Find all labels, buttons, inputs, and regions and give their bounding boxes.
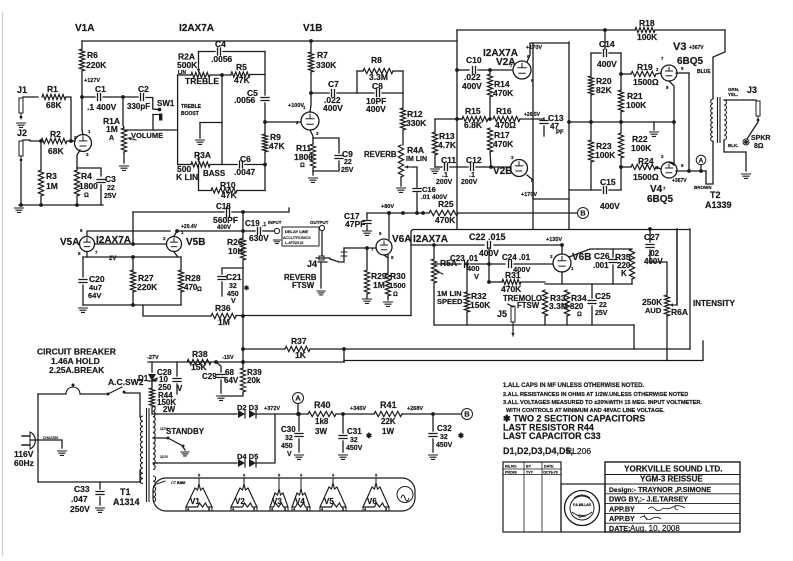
connector J3 label [747,85,757,95]
wire color brown [694,185,712,190]
resistor R17 value [493,130,514,149]
svg-text:.047: .047 [71,494,88,504]
wire C18 bus to C19 riser [242,212,244,231]
svg-text:D1,D2,D3,D4,D5,: D1,D2,D3,D4,D5, [503,446,573,456]
triode V6A [376,239,392,255]
svg-text:32: 32 [350,437,358,444]
tube section label V1B [303,23,322,34]
svg-text:C4: C4 [215,39,226,49]
connector J4 jack [316,256,330,262]
svg-text:C26: C26 [594,251,610,261]
wire C25 string top [591,284,593,298]
node riser joints [487,262,491,284]
title company [624,465,723,474]
node C16 B line [415,211,419,215]
svg-text:SW1: SW1 [157,99,175,108]
svg-text:+80V: +80V [381,204,394,210]
node A (screen tap) [696,155,706,165]
ground (C33) [96,508,105,512]
wire C28 string [176,362,178,376]
transformer T1 heater secondary [153,476,156,502]
capacitor C10 [473,67,476,74]
wire cathode row tremolo [545,283,632,285]
wire V5A cathode stub [86,252,88,257]
svg-text:-27V: -27V [147,355,159,361]
capacitor C13 value [548,113,564,136]
svg-text:5: 5 [208,508,210,512]
svg-text:C32: C32 [437,424,452,433]
ground (J1) [17,123,26,127]
pilot lamp [397,487,413,503]
capacitor C31 value [346,427,372,452]
svg-text:200V: 200V [461,179,478,186]
resistor R37 [285,346,310,351]
svg-text:.1: .1 [469,172,475,179]
reverb footswitch label [284,273,317,290]
resistor R41 value [380,400,397,436]
engineer stamp seal [565,491,600,526]
svg-text:R24: R24 [638,156,654,166]
wire grid row left [435,166,442,168]
svg-text:470K: 470K [493,88,514,98]
svg-text:C2: C2 [138,84,149,94]
svg-text:400V: 400V [462,81,482,91]
svg-text:22K: 22K [381,417,396,426]
resistor R29 value [371,271,387,290]
potentiometer R1A label [103,116,120,142]
wire OT secondary bottom [724,140,746,171]
delay line module [282,227,319,246]
wire plug to box [31,439,38,441]
wire V3 pin9 out [676,72,689,74]
node R36 R37 joins [241,314,245,364]
diode D2 [238,410,245,418]
svg-text:.01: .01 [421,194,430,201]
wire R27 top [132,257,134,270]
svg-text:1k8: 1k8 [315,417,329,426]
ground (treble boost) [196,140,205,144]
capacitor C16 [413,189,421,192]
wire ladder bottom right [609,189,621,191]
capacitor C4 value [211,39,233,64]
capacitor C4 [218,48,221,55]
svg-text:C24 .01: C24 .01 [502,253,531,262]
svg-text:YEL.: YEL. [728,92,738,97]
wire V5A plate top [87,231,170,236]
svg-text:TREBLE: TREBLE [181,104,202,110]
node B (mid) [578,208,589,219]
resistor R6 [79,49,84,71]
reverb wiper arrow [405,165,413,169]
capacitor C9 value [341,149,354,174]
capacitor C26 value [593,251,610,270]
resistor R32 value [470,291,491,310]
svg-text:60Hz: 60Hz [14,458,34,468]
resistor R12 [400,108,405,130]
svg-text:YGM-3 REISSUE: YGM-3 REISSUE [640,475,703,484]
wire R37 line right [310,348,690,350]
svg-text:R10: R10 [220,180,236,190]
capacitor C20 [79,280,87,283]
svg-text:R5A: R5A [440,258,457,268]
svg-text:330K: 330K [406,118,427,128]
resistor R4 value [79,171,98,199]
wire R10 left vertical [199,166,212,191]
svg-text:A1314: A1314 [113,497,140,507]
notes line 3 [503,400,702,406]
wire V6A cathode [384,255,388,258]
svg-text:3.ALL VOLTAGES MEASURED TO ±20: 3.ALL VOLTAGES MEASURED TO ±20%WITH 15 M… [503,400,702,406]
capacitor C30 value [281,425,296,458]
wire C20 bottom [82,285,84,305]
wire C10 to V2A grid [478,69,512,71]
node R5A top [432,243,436,247]
wire treble row left [178,74,191,76]
voltage V4 +367V [672,178,687,184]
capacitor C10 value [462,55,482,91]
svg-text:C21: C21 [226,272,242,282]
wire R7 top [310,41,312,52]
resistor R21 value [626,91,647,110]
node plate/C1 [80,95,84,99]
J5 ground arrow [511,322,515,336]
svg-text:64V: 64V [88,291,101,300]
capacitor C22 [488,242,491,249]
node plate V1B [309,91,313,95]
wire C23 line [435,263,461,265]
svg-text:330pF: 330pF [127,102,150,111]
resistor R17 [487,128,492,152]
capacitor C32 value [436,424,464,449]
voltage +372V [264,406,280,412]
capacitor C3 [97,180,105,183]
potentiometer R6A label [671,307,688,317]
wire C31 bottom [342,441,344,452]
svg-text:2.ALL RESISTANCES IN OHMS AT 1: 2.ALL RESISTANCES IN OHMS AT 1/2W.UNLESS… [503,392,688,398]
svg-text:10K: 10K [228,246,244,256]
svg-text:✱: ✱ [366,432,372,440]
capacitor C20 value [88,274,105,300]
svg-text:R40: R40 [314,400,331,410]
svg-text:100K: 100K [637,32,658,42]
svg-text:47K: 47K [269,141,285,151]
ground (R13 C11) [431,169,440,173]
wire C33 bottom [99,497,101,505]
voltage +345V [350,406,366,412]
svg-text:+170V: +170V [526,45,542,51]
wire R30 top [387,255,389,273]
node C27 top [648,227,652,231]
capacitor C29 value [202,368,239,385]
svg-text:B: B [464,410,470,419]
wire R2 to V1A grid [67,140,75,142]
capacitor C8 [377,90,380,97]
capacitor C11 [445,164,448,171]
shielded cable marks [341,252,347,256]
svg-text:BLK.: BLK. [728,143,739,148]
capacitor C30 [295,434,303,437]
capacitor C12 [471,164,474,171]
resistor R21 [618,90,623,112]
svg-text:.1 400V: .1 400V [87,102,117,112]
resistor R1 [42,94,66,99]
switch AC SW2 [107,387,126,396]
svg-text:BASS: BASS [203,169,226,178]
wire C32 bottom [432,439,434,452]
capacitor C8 value [366,96,386,114]
transformer T2 primary [711,99,713,141]
svg-text:R1: R1 [47,84,58,94]
node V6B grid top [560,243,564,247]
wire R8 top left [357,70,363,72]
ground (speaker return) [742,174,751,178]
wire delay output down [321,231,323,256]
node cathode row x457 [455,117,459,121]
capacitor C32 [429,434,437,437]
wire volume line to tone box [124,129,178,131]
wire vertical x569 [568,42,570,229]
pin numbers V5A [78,228,98,256]
ground (R4A) [397,188,406,192]
resistor R24 [631,164,656,169]
resistor R23 value [595,141,616,160]
svg-text:SPKR: SPKR [751,135,770,142]
resistor R9 value [269,132,285,151]
resistor R13 [432,132,437,155]
svg-text:V5B: V5B [186,237,205,248]
resistor R28 [178,270,183,292]
svg-text:V2A: V2A [496,57,515,68]
wire R1 to grid node [66,97,71,141]
svg-text:3W: 3W [315,427,327,436]
voltage -15V [222,355,234,361]
svg-text:R38: R38 [192,349,208,359]
wire R10 right [237,190,265,192]
resistor R20 value [596,76,612,95]
wire R4A bottom [400,177,402,186]
wire tremolo box top [411,230,690,241]
wire C8 right [382,92,403,94]
node V6A plate [387,211,391,215]
svg-text:A: A [295,394,301,403]
node bottom bus [19,203,79,207]
tube label V6A [392,234,448,245]
resistor R16 value [495,106,516,130]
svg-text:Design:-: Design:- [609,487,636,494]
wire C21 bottom [221,282,223,296]
wire wiper to C16 [413,167,417,187]
delay line text [283,229,311,245]
svg-text:22: 22 [599,302,607,309]
wire C14 top feed [604,30,606,49]
svg-text:450V: 450V [346,445,363,452]
transformer T1 label [113,487,140,507]
svg-text:32: 32 [440,434,448,441]
triode V2B [511,160,528,177]
wire bias line right [344,341,703,362]
svg-text:1M: 1M [46,181,58,191]
wire R32 bottom [466,312,468,325]
resistor R40 value [314,400,331,436]
wire R12 to pot [402,130,404,145]
capacitor C16 value [421,185,448,201]
wire R16 to C13 [520,118,544,120]
wire R6A bottom [666,316,668,361]
node R37 junction [342,347,346,351]
wire C22 line left [411,244,484,246]
wire V4 pin9 row [676,170,706,172]
svg-text:OUTPUT: OUTPUT [310,220,329,225]
wire C18 bus left [133,211,224,213]
svg-text:470K: 470K [501,284,522,294]
potentiometer R1A volume [121,128,126,152]
tube type 6BQ5 (V3) [677,56,704,67]
bass label [203,169,226,178]
potentiometer R5A label [440,258,457,268]
svg-text:6.8K: 6.8K [464,120,483,130]
wire lower rectifier rail [157,462,237,464]
pin numbers V2B [511,155,534,183]
svg-text:400V: 400V [323,103,343,113]
wire V5 cathode row [83,256,181,258]
svg-text:R5: R5 [236,62,247,72]
svg-text:47K: 47K [221,190,237,200]
svg-text:25V: 25V [595,310,608,317]
svg-text:REVERB: REVERB [364,150,397,159]
transformer T1 primary [140,416,143,484]
svg-text:APP.BY: APP.BY [609,504,635,513]
capacitor C5 value [234,88,258,105]
svg-text:Ω: Ω [197,287,202,293]
svg-text:C12: C12 [466,155,482,165]
wire V3 cathode down [669,81,674,122]
resistor R22 value [631,134,652,153]
resistor R27 [130,270,135,292]
delay line input terminal [274,228,279,233]
wire R5A top [433,245,435,259]
wire AC box left [37,394,39,482]
svg-text:5: 5 [342,508,344,512]
wire OT primary top feed [713,30,725,99]
wire C29 string [216,362,221,372]
resistor R11 [310,144,315,168]
resistor R28 value [184,273,202,293]
svg-text:C27: C27 [644,232,660,242]
svg-text:INPUT: INPUT [268,220,282,225]
wire D1 to R44 [151,382,153,388]
capacitor C23 [465,261,468,268]
wire A stub [297,404,299,414]
wire R14 top [489,70,491,74]
resistor R24 value [633,156,659,182]
capacitor C14 value [597,39,617,69]
wire ladder mid bridge [569,121,674,123]
svg-text:BOOST: BOOST [181,111,199,117]
wire ladder left lower [590,162,592,190]
svg-text:V2: V2 [235,497,245,506]
svg-text:FTSW: FTSW [292,281,315,290]
svg-text:V5: V5 [324,497,334,506]
capacitor C24 [509,261,512,268]
svg-text:V3: V3 [673,41,686,53]
svg-text:C22 .015: C22 .015 [469,232,506,242]
svg-text:T1: T1 [120,487,131,497]
wire grid row mid [450,166,468,168]
wire lower rail join [257,414,275,463]
capacitor C15 [604,187,607,194]
resistor R32 [464,292,469,312]
wire V4 top [669,162,674,165]
capacitor C25 [588,301,596,304]
resistor R31 [502,279,521,284]
voltage +380V note [244,285,249,292]
svg-text:A: A [109,135,114,142]
svg-text:R3A: R3A [194,150,211,160]
notes line 7 [503,431,601,441]
svg-text:R18: R18 [639,18,655,28]
resistor R44 [149,388,154,407]
voltage +26.5V [524,112,541,118]
wire C31 string [342,414,344,433]
wire cathode bus lower [673,122,675,165]
node R24 left [619,165,623,169]
wire R3 top [40,141,42,170]
resistor R14 [487,74,492,97]
pin numbers V6B [550,254,574,271]
wire tap bias [152,378,157,380]
wire R30 bottom [387,296,389,300]
svg-text:CIRCUIT BREAKER: CIRCUIT BREAKER [37,347,116,357]
wire R13 join row [435,118,462,120]
wire R25 to B [458,212,577,214]
pin numbers V1B [296,105,319,136]
switch SW1 [153,108,162,121]
svg-text:820: 820 [570,302,584,311]
wire V6B top stub [561,245,563,254]
wire R29 bottom [366,294,368,298]
svg-text:Aug. 10, 2008: Aug. 10, 2008 [630,524,680,533]
wire C26 bottom [612,265,614,284]
capacitor C7 [332,90,335,97]
node C14 top [603,28,607,32]
svg-text:470Ω: 470Ω [495,120,516,130]
capacitor C27 [646,245,654,248]
tube label V3 [673,41,704,53]
treble boost label [181,104,202,117]
capacitor C19 [258,228,261,235]
ground (volume) [120,166,129,170]
svg-text:.0056: .0056 [211,54,233,64]
resistor R20 [588,76,593,95]
voltage +170V top [526,45,542,51]
capacitor C17 [363,221,371,224]
heater CT label [171,481,186,485]
wire V6B cathode [561,272,563,284]
capacitor C15 value [600,177,620,211]
wire V5B top node [174,231,243,236]
svg-text:A: A [699,157,704,164]
resistor R16 [493,116,520,121]
svg-text:V6B: V6B [572,252,591,263]
wire J1 to R1 [23,96,38,98]
title design [609,485,711,494]
svg-text:400V: 400V [366,104,386,114]
wire tone right vertical lower [264,152,266,191]
svg-text:1800: 1800 [294,152,313,162]
wire C28 bottom [176,384,178,394]
svg-text:+268V: +268V [407,406,423,412]
svg-text:R15: R15 [465,106,481,116]
